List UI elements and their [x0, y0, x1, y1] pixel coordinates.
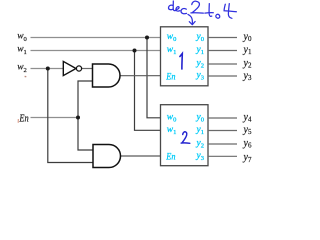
- handwritten annotation letter t: [205, 4, 214, 17]
- wire output y0 stub: [208, 37, 237, 39]
- node junction dot on w1: [133, 49, 137, 53]
- wire output y7 stub: [208, 155, 237, 157]
- AND gate G1: [93, 64, 121, 87]
- wire w1 vertical drop to box2: [135, 51, 161, 131]
- node junction dot on w2: [46, 67, 50, 71]
- wire En vertical to AND1 and AND2: [78, 81, 93, 150]
- handwritten annotation letter e: [176, 7, 180, 12]
- handwritten digit 2 inside U2: [181, 132, 190, 143]
- wire output y4 stub: [208, 117, 237, 119]
- handwritten digit 1 inside U1: [180, 54, 182, 70]
- handwritten annotation letter o: [216, 14, 220, 18]
- wire AND1 output to box1 En: [120, 75, 161, 77]
- wire w0 horizontal: [31, 37, 161, 39]
- wire En horizontal: [31, 117, 79, 119]
- decoder box U2: [161, 105, 209, 166]
- inverter NOT gate triangle: [63, 61, 76, 75]
- handwritten arrow to box U1: [188, 14, 195, 24]
- artifact dot above En: [25, 75, 27, 77]
- inverter NOT gate bubble: [76, 66, 81, 71]
- AND gate G2: [93, 145, 121, 168]
- decoder box U1: [161, 27, 209, 86]
- svg-text:En: En: [165, 71, 176, 82]
- wire output y2 stub: [208, 63, 237, 65]
- wire output y3 stub: [208, 75, 237, 77]
- wire AND2 output to box2 En: [121, 155, 161, 157]
- wire output y5 stub: [208, 130, 237, 132]
- handwritten annotation digit 4: [224, 4, 236, 19]
- handwritten annotation letter c: [181, 8, 187, 13]
- wire w2 horizontal: [31, 68, 64, 70]
- handwritten annotation "dec2to4" letter d: [168, 1, 175, 11]
- wire w0 vertical drop to box2: [147, 38, 161, 118]
- wire w2 vertical drop to AND2: [48, 69, 93, 163]
- wire from NOT bubble to AND1 input: [82, 68, 93, 70]
- wire output y6 stub: [208, 143, 237, 145]
- handwritten annotation digit 2: [191, 1, 204, 13]
- wire output y1 stub: [208, 50, 237, 52]
- svg-text:En: En: [165, 151, 176, 162]
- node junction dot on w0: [145, 36, 149, 40]
- wire w1 horizontal: [31, 50, 161, 52]
- node junction dot on En: [76, 116, 80, 120]
- svg-text:En: En: [18, 113, 29, 124]
- artifact mark near En label: [17, 119, 19, 123]
